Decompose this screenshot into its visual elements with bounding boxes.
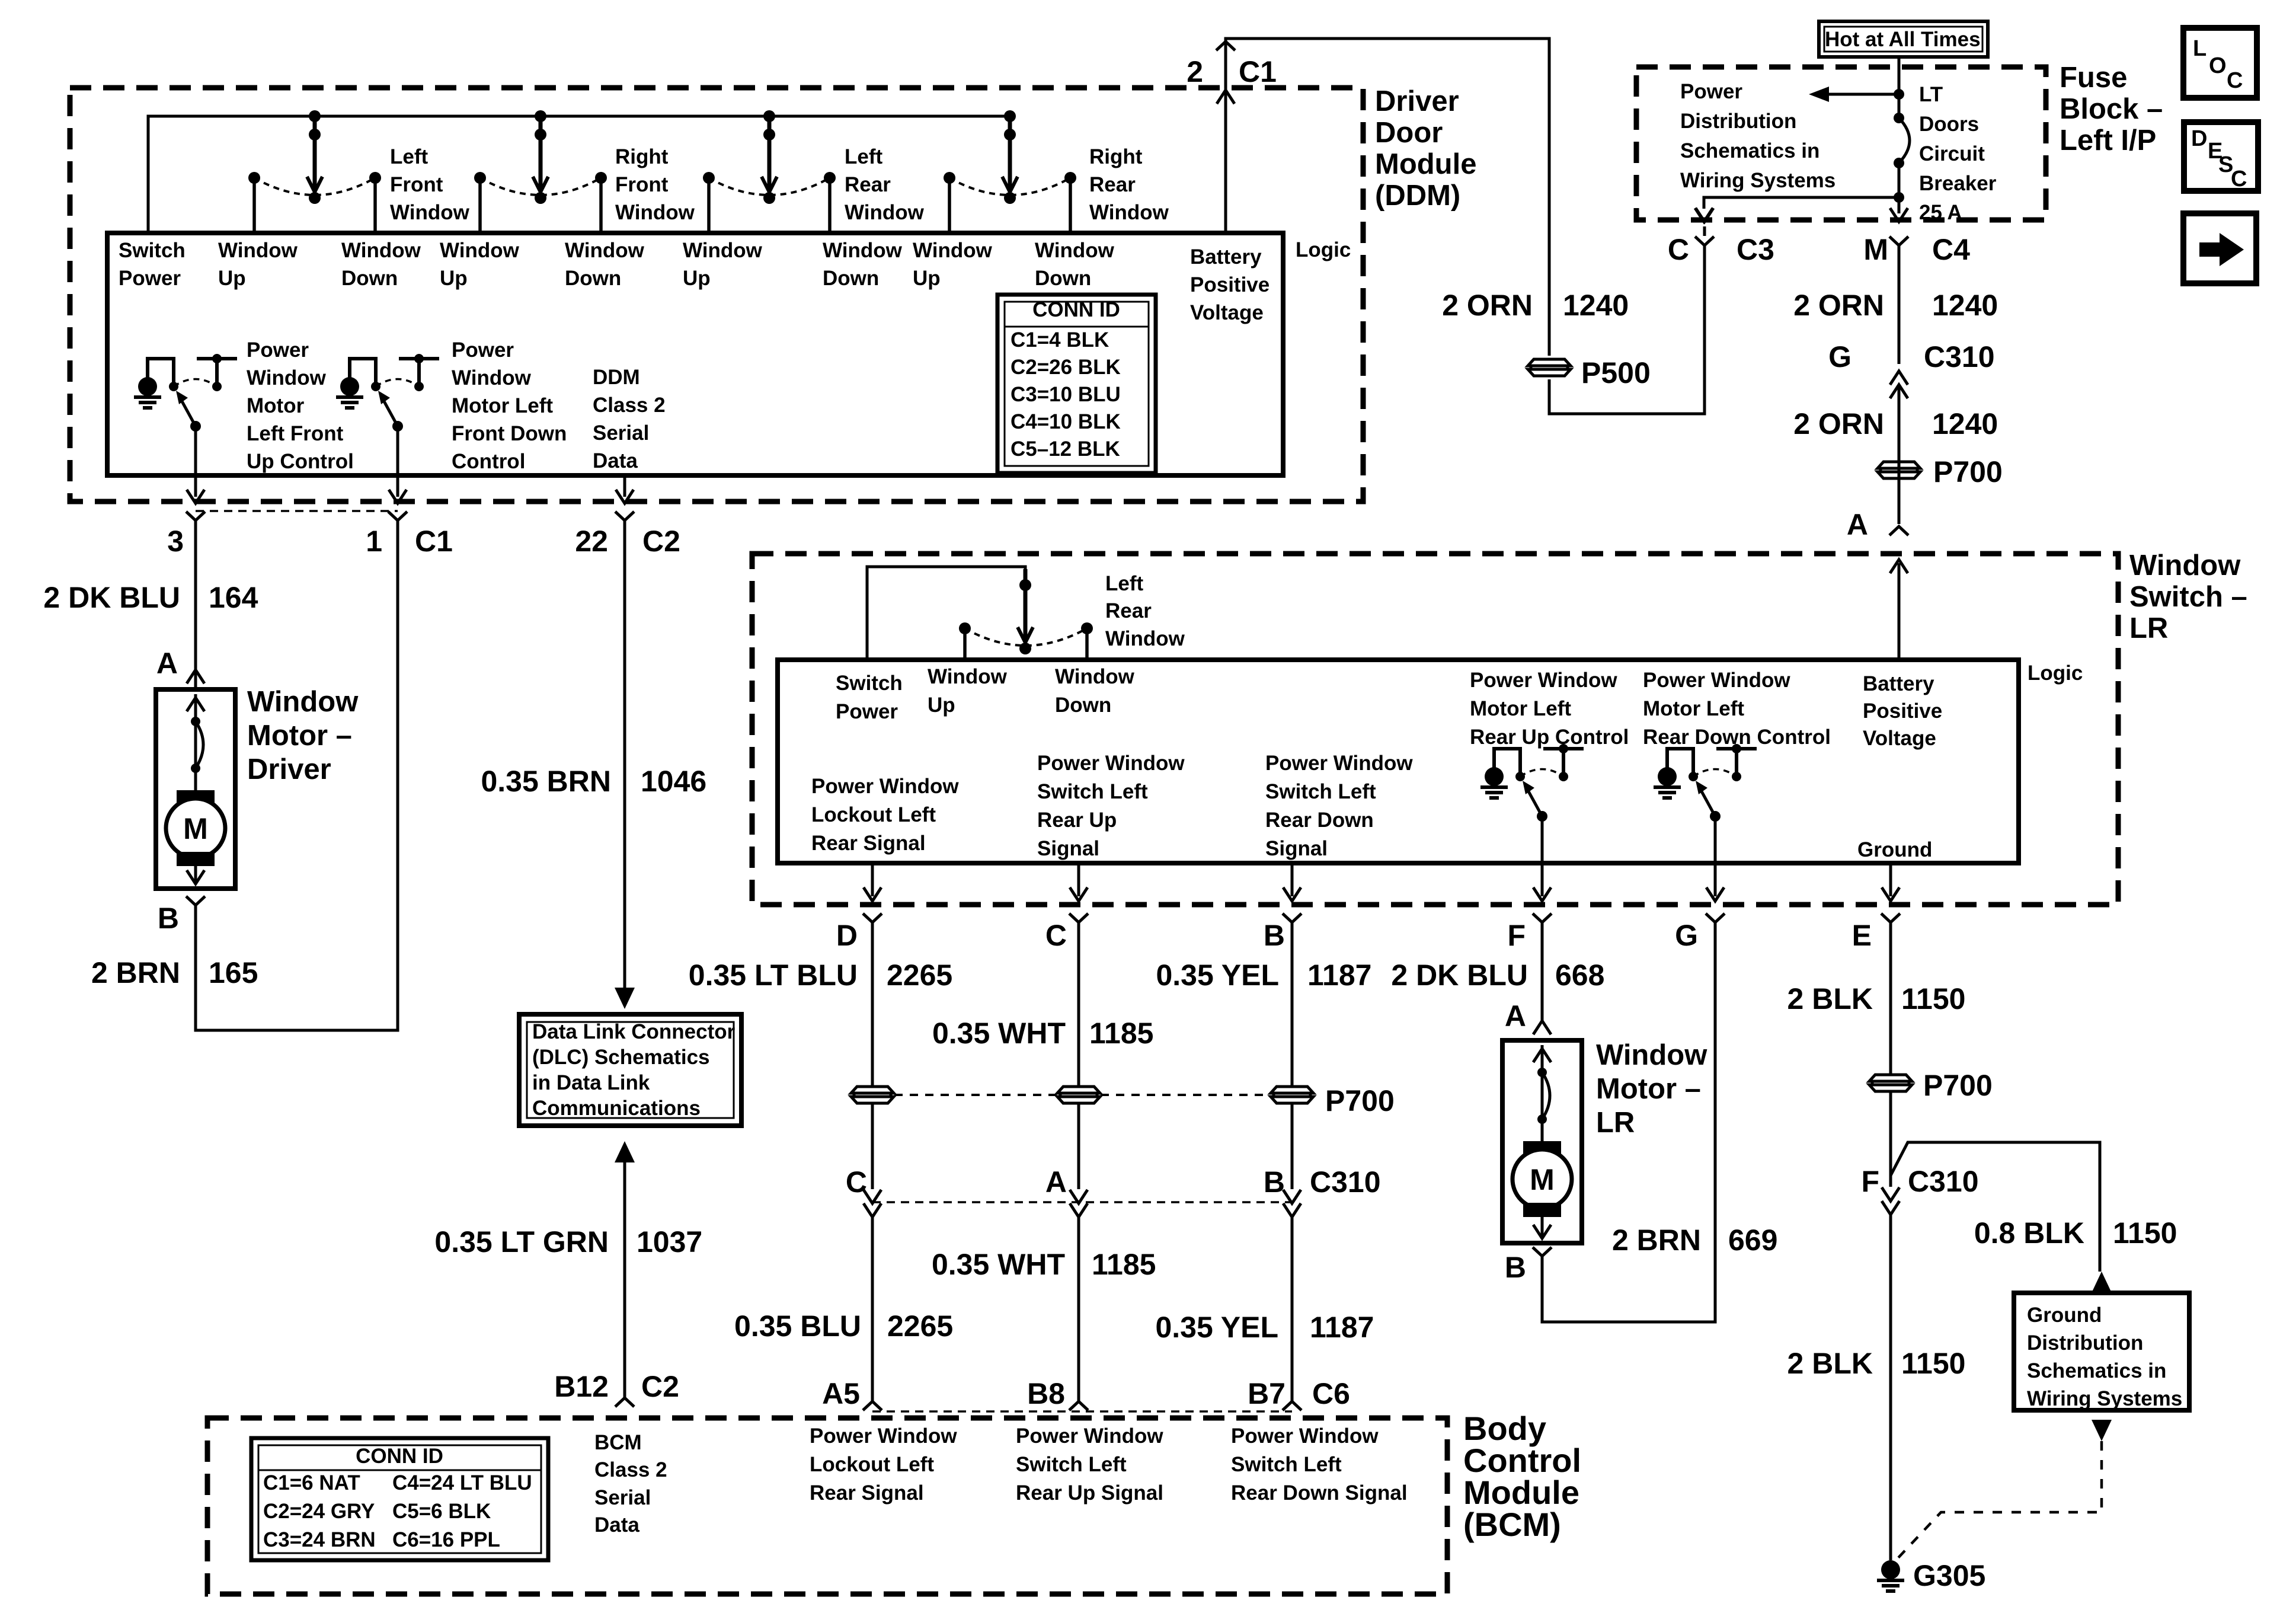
wire pin D circuit 2265 upper: [871, 922, 874, 1086]
svg-text:M: M: [1530, 1163, 1555, 1196]
svg-text:Switch Left: Switch Left: [1016, 1453, 1127, 1476]
svg-text:Module: Module: [1375, 148, 1476, 180]
connector pin B fork (motor driver): [186, 896, 205, 905]
svg-text:1240: 1240: [1563, 289, 1629, 322]
connector pin B fork: [1283, 913, 1302, 922]
svg-text:Hot at All Times: Hot at All Times: [1825, 28, 1981, 51]
svg-text:Down: Down: [341, 267, 398, 290]
svg-text:DDM: DDM: [593, 366, 640, 389]
svg-text:164: 164: [209, 581, 258, 614]
arrow into ground distribution box: [2092, 1272, 2112, 1293]
wire pin E ground circuit 1150: [1889, 922, 1892, 1074]
connector pin G fork: [1706, 913, 1725, 922]
connector C310 pass-through (C wire): [1070, 1190, 1088, 1203]
svg-text:Rear Down Signal: Rear Down Signal: [1231, 1481, 1408, 1505]
svg-text:2 DK BLU: 2 DK BLU: [43, 581, 180, 614]
wire fuse M C4 to G C310: [1898, 245, 1901, 364]
svg-text:C6: C6: [1312, 1377, 1350, 1410]
svg-text:1150: 1150: [1901, 982, 1965, 1015]
table CONN ID (DDM): [997, 295, 1156, 473]
connector pin C C3 fork: [1695, 237, 1714, 245]
svg-text:Fuse: Fuse: [2060, 62, 2127, 94]
svg-text:C: C: [1668, 233, 1689, 266]
svg-text:Power Window: Power Window: [1037, 752, 1185, 775]
svg-text:C1: C1: [1239, 55, 1277, 88]
svg-text:Up Control: Up Control: [247, 450, 354, 473]
svg-text:(DDM): (DDM): [1375, 180, 1460, 212]
svg-text:Power: Power: [119, 267, 181, 290]
svg-text:Doors: Doors: [1919, 113, 1979, 136]
svg-text:Class 2: Class 2: [593, 394, 666, 417]
svg-text:C4=10 BLK: C4=10 BLK: [1011, 410, 1121, 433]
svg-text:Down: Down: [1055, 694, 1111, 717]
svg-text:1240: 1240: [1932, 289, 1998, 322]
connector pin B fork (motor LR): [1533, 1247, 1552, 1256]
svg-text:1240: 1240: [1932, 407, 1998, 440]
wire Q3 output to pin F: [1541, 816, 1544, 896]
svg-text:D: D: [836, 919, 858, 952]
module box Fuse Block - Left I/P dashed outline: [1636, 67, 2046, 220]
svg-text:1187: 1187: [1307, 959, 1371, 992]
svg-text:Switch Left: Switch Left: [1231, 1453, 1342, 1476]
legend box arrow: [2183, 213, 2256, 283]
svg-text:C2=24 GRY: C2=24 GRY: [263, 1500, 375, 1523]
svg-text:22: 22: [575, 525, 608, 558]
svg-text:Right: Right: [1089, 145, 1143, 168]
svg-text:P700: P700: [1923, 1069, 1993, 1102]
box Data Link Connector (DLC) Schematics: [519, 1014, 741, 1126]
svg-text:C: C: [846, 1165, 867, 1199]
svg-text:Front: Front: [615, 173, 669, 196]
svg-text:Signal: Signal: [1037, 837, 1099, 860]
dashed connector line C6 row: [872, 1410, 1292, 1413]
svg-text:A: A: [156, 647, 178, 680]
wire battery into LR logic box: [1898, 563, 1901, 660]
svg-text:Driver: Driver: [1375, 85, 1459, 117]
svg-text:Logic: Logic: [2028, 662, 2083, 685]
svg-text:Wiring Systems: Wiring Systems: [1680, 169, 1835, 192]
svg-text:Power: Power: [452, 338, 514, 362]
box Ground Distribution Schematics in Wiring Systems: [2014, 1293, 2189, 1410]
svg-text:1037: 1037: [637, 1225, 702, 1259]
svg-text:C4: C4: [1932, 233, 1970, 266]
svg-text:G: G: [1828, 340, 1851, 373]
svg-text:C310: C310: [1908, 1165, 1979, 1198]
svg-text:B: B: [1505, 1251, 1526, 1284]
svg-text:Breaker: Breaker: [1919, 172, 1997, 195]
svg-text:Data Link Connector: Data Link Connector: [532, 1020, 736, 1043]
connector pin F fork: [1533, 913, 1552, 922]
svg-text:Rear: Rear: [1089, 173, 1136, 196]
svg-text:Window: Window: [1596, 1039, 1707, 1071]
svg-text:C2: C2: [642, 525, 680, 558]
svg-text:Power Window: Power Window: [810, 1424, 957, 1448]
svg-text:0.35 LT BLU: 0.35 LT BLU: [689, 959, 858, 992]
svg-text:Rear Up Signal: Rear Up Signal: [1016, 1481, 1163, 1505]
svg-text:F: F: [1507, 919, 1526, 952]
svg-text:Battery: Battery: [1863, 672, 1934, 695]
svg-text:C5–12 BLK: C5–12 BLK: [1011, 437, 1120, 461]
svg-text:C6=16 PPL: C6=16 PPL: [392, 1528, 500, 1551]
svg-text:Left I/P: Left I/P: [2060, 124, 2156, 156]
svg-text:0.35 YEL: 0.35 YEL: [1155, 1311, 1278, 1344]
svg-text:Window: Window: [218, 239, 298, 262]
svg-text:Power: Power: [836, 700, 898, 723]
wire breaker to pin M: [1890, 208, 1908, 222]
svg-text:1: 1: [366, 525, 382, 558]
connector pin 1 C1 fork: [388, 512, 407, 520]
svg-text:0.35 BLU: 0.35 BLU: [734, 1309, 861, 1343]
wire hot feed into breaker: [1898, 57, 1901, 118]
svg-text:Rear Up Control: Rear Up Control: [1470, 726, 1629, 749]
svg-text:Voltage: Voltage: [1190, 301, 1264, 324]
svg-text:(DLC) Schematics: (DLC) Schematics: [532, 1046, 710, 1069]
svg-text:Wiring Systems: Wiring Systems: [2027, 1387, 2182, 1410]
wire DLC to BCM pin B12 C2: [615, 1141, 635, 1162]
svg-text:2 BLK: 2 BLK: [1787, 982, 1873, 1015]
module box Driver Door Module (DDM) dashed outline: [70, 88, 1363, 502]
svg-text:B12: B12: [554, 1370, 609, 1403]
wire pin 22 to data link connector: [623, 520, 626, 989]
svg-text:Window: Window: [823, 239, 903, 262]
svg-text:Motor: Motor: [247, 394, 305, 417]
connector pin A chevron (motor LR): [1533, 1021, 1551, 1034]
svg-text:Power Window: Power Window: [1231, 1424, 1379, 1448]
svg-text:Power Window: Power Window: [1470, 669, 1617, 692]
switch S4 right rear window selector: [1004, 110, 1016, 122]
svg-text:C310: C310: [1924, 340, 1995, 373]
svg-text:Up: Up: [218, 267, 246, 290]
wire motor LR B return loop to pin G: [1542, 922, 1715, 1322]
wire LR switch power bus: [867, 567, 1025, 660]
svg-text:Ground: Ground: [1857, 838, 1932, 861]
svg-text:C1=6 NAT: C1=6 NAT: [263, 1471, 360, 1494]
svg-text:A5: A5: [822, 1377, 860, 1410]
splice P700 (C wire): [1057, 1087, 1100, 1093]
svg-text:Power Window: Power Window: [1265, 752, 1413, 775]
wire pin F to window motor LR: [1541, 922, 1544, 1023]
svg-text:25 A: 25 A: [1919, 201, 1962, 224]
svg-text:Window: Window: [341, 239, 421, 262]
svg-text:2 BRN: 2 BRN: [1612, 1224, 1701, 1257]
connector G C310 pass-through: [1890, 371, 1908, 385]
wire Q4 output to pin G: [1714, 816, 1717, 896]
svg-text:0.35 BRN: 0.35 BRN: [481, 765, 611, 798]
svg-text:Lockout Left: Lockout Left: [810, 1453, 934, 1476]
circuit breaker LT Doors 25A: [1894, 113, 1904, 123]
svg-text:2 ORN: 2 ORN: [1793, 289, 1884, 322]
svg-text:P700: P700: [1325, 1084, 1395, 1117]
svg-text:C3: C3: [1737, 233, 1774, 266]
svg-text:0.35 LT GRN: 0.35 LT GRN: [434, 1225, 609, 1259]
wire motor driver B return loop to pin 1: [196, 520, 398, 1030]
svg-text:Data: Data: [594, 1513, 639, 1537]
svg-text:Data: Data: [593, 449, 638, 472]
connector pin D fork: [863, 913, 882, 922]
svg-text:C2=26 BLK: C2=26 BLK: [1011, 356, 1121, 379]
svg-text:Circuit: Circuit: [1919, 142, 1985, 165]
svg-text:Schematics in: Schematics in: [1680, 139, 1819, 162]
svg-text:1046: 1046: [641, 765, 706, 798]
connector pin 2 C1 fork: [1216, 41, 1235, 50]
svg-text:Class 2: Class 2: [594, 1458, 667, 1481]
svg-text:D: D: [2191, 126, 2207, 151]
wire Q1 output to pin 3: [194, 426, 197, 497]
svg-text:Battery: Battery: [1190, 245, 1262, 269]
svg-text:165: 165: [209, 956, 258, 989]
wire LR pin B output: [1291, 863, 1294, 896]
module box Window Switch - LR dashed outline: [752, 554, 2118, 905]
svg-text:Rear Signal: Rear Signal: [811, 832, 926, 855]
dashed connector line C310 row: [872, 1201, 1292, 1203]
svg-text:Up: Up: [913, 267, 941, 290]
connector pin A5 fork: [863, 1401, 882, 1410]
svg-text:Left: Left: [390, 145, 428, 168]
svg-text:Communications: Communications: [532, 1097, 701, 1120]
svg-text:B: B: [158, 902, 179, 935]
svg-text:Down: Down: [1035, 267, 1091, 290]
svg-text:C: C: [2227, 68, 2243, 93]
svg-text:C310: C310: [1310, 1165, 1381, 1199]
svg-text:B: B: [1264, 919, 1285, 952]
connector pin E fork: [1881, 913, 1900, 922]
svg-text:B: B: [1264, 1165, 1285, 1199]
connector pin B7 fork: [1283, 1401, 1302, 1410]
svg-text:Logic: Logic: [1296, 238, 1351, 261]
svg-text:Up: Up: [683, 267, 711, 290]
switch S3 left rear window selector: [763, 110, 775, 122]
wire DDM switch power bus: [148, 116, 1010, 233]
svg-text:Window: Window: [2129, 550, 2241, 582]
svg-text:Door: Door: [1375, 117, 1443, 149]
connector pin 3 C1 fork: [186, 512, 205, 520]
svg-text:Window: Window: [390, 201, 470, 224]
wire G C310 to window switch LR pin A: [1898, 386, 1901, 524]
table CONN ID (BCM): [251, 1438, 548, 1560]
wire serial data to pin 22: [623, 475, 626, 497]
svg-text:Power: Power: [1680, 80, 1742, 103]
wire LR pin C output: [1077, 863, 1080, 896]
svg-text:G305: G305: [1913, 1559, 1985, 1592]
svg-text:Rear Signal: Rear Signal: [810, 1481, 924, 1505]
svg-text:Rear Up: Rear Up: [1037, 809, 1117, 832]
dashed connector line C1 between pin 3 and pin 1: [196, 510, 398, 512]
wire branch to ground distribution: [1891, 1142, 2100, 1272]
svg-text:LT: LT: [1919, 83, 1943, 106]
wire ground pin E output: [1889, 863, 1892, 896]
svg-text:Power Window: Power Window: [1016, 1424, 1163, 1448]
svg-text:CONN ID: CONN ID: [1032, 298, 1120, 321]
svg-text:2 ORN: 2 ORN: [1442, 289, 1533, 322]
splice P700 (orange wire): [1878, 462, 1920, 468]
splice P700 (ground wire): [1869, 1075, 1912, 1081]
svg-text:C: C: [2231, 167, 2247, 191]
svg-text:Window: Window: [913, 239, 993, 262]
wire P500 to fuse block pin C C3: [1549, 245, 1705, 414]
svg-text:in Data Link: in Data Link: [532, 1071, 650, 1094]
arrow into window switch LR: [1890, 560, 1908, 573]
svg-text:C3=24 BRN: C3=24 BRN: [263, 1528, 376, 1551]
svg-text:Rear: Rear: [1105, 599, 1152, 622]
svg-text:(BCM): (BCM): [1463, 1506, 1561, 1543]
svg-text:Distribution: Distribution: [2027, 1331, 2143, 1355]
svg-text:Driver: Driver: [247, 753, 331, 785]
svg-text:Window: Window: [615, 201, 695, 224]
svg-text:Front: Front: [390, 173, 443, 196]
wire Q2 output to pin 1: [396, 426, 399, 497]
svg-text:Left: Left: [1105, 572, 1144, 595]
svg-text:A: A: [1045, 1165, 1067, 1199]
svg-text:BCM: BCM: [594, 1431, 642, 1454]
svg-text:M: M: [1863, 233, 1888, 266]
dashed splice line P700 row: [894, 1094, 1057, 1096]
wire pin 3 to window motor driver pin A: [194, 520, 197, 688]
svg-text:Window: Window: [1105, 627, 1185, 650]
svg-text:A: A: [1505, 999, 1526, 1033]
svg-text:F: F: [1861, 1165, 1879, 1198]
svg-text:2 DK BLU: 2 DK BLU: [1391, 959, 1528, 992]
svg-text:Rear: Rear: [845, 173, 891, 196]
svg-text:Serial: Serial: [594, 1486, 651, 1509]
svg-text:2265: 2265: [887, 959, 952, 992]
connector pin 22 C2 fork: [615, 512, 634, 520]
switch Q1 power window motor left front up control: [138, 377, 157, 396]
ground G305: [1881, 1560, 1900, 1579]
svg-text:Positive: Positive: [1863, 700, 1942, 723]
box Hot at All Times: [1819, 21, 1988, 57]
switch Q4 motor left rear down control: [1658, 767, 1677, 786]
component Window Motor - Driver: [156, 689, 235, 889]
svg-text:669: 669: [1728, 1224, 1777, 1257]
connector pin B12 C2 fork: [615, 1398, 634, 1407]
connector pin A chevron (motor driver): [187, 670, 204, 683]
connector C310 pass-through (D wire): [864, 1190, 881, 1203]
svg-text:Left: Left: [845, 145, 883, 168]
wire LR pin D output: [871, 863, 874, 896]
svg-text:C2: C2: [641, 1370, 679, 1403]
svg-text:Voltage: Voltage: [1863, 727, 1936, 750]
module box Body Control Module (BCM) dashed outline: [207, 1418, 1447, 1594]
svg-text:B7: B7: [1248, 1377, 1285, 1410]
switch S1 left front window selector: [309, 110, 321, 122]
wire breaker to pin C branch: [1704, 197, 1899, 209]
svg-text:Serial: Serial: [593, 421, 649, 445]
svg-text:C1: C1: [415, 525, 453, 558]
svg-text:Power Window: Power Window: [811, 775, 959, 798]
svg-text:Control: Control: [452, 450, 525, 473]
LR logic box: [778, 660, 2019, 863]
svg-text:C1=4 BLK: C1=4 BLK: [1011, 328, 1109, 352]
svg-text:Power: Power: [247, 338, 309, 362]
svg-text:Window: Window: [1035, 239, 1115, 262]
svg-text:Motor –: Motor –: [247, 720, 352, 752]
svg-text:Lockout Left: Lockout Left: [811, 803, 936, 826]
svg-text:Window: Window: [247, 366, 327, 389]
switch S5 left rear window selector: [1019, 579, 1031, 591]
svg-text:0.8 BLK: 0.8 BLK: [1974, 1216, 2084, 1250]
svg-text:2 ORN: 2 ORN: [1793, 407, 1884, 440]
svg-text:Signal: Signal: [1265, 837, 1328, 860]
switch Q3 motor left rear up control: [1485, 767, 1504, 786]
svg-text:Motor –: Motor –: [1596, 1073, 1701, 1105]
svg-text:0.35 WHT: 0.35 WHT: [932, 1248, 1065, 1281]
connector pin M C4 fork: [1889, 237, 1908, 245]
svg-text:Rear Down: Rear Down: [1265, 809, 1374, 832]
svg-text:P700: P700: [1933, 455, 2003, 488]
svg-text:Motor Left: Motor Left: [452, 394, 553, 417]
wire pin B circuit 1187 upper: [1291, 922, 1294, 1086]
connector C310 pass-through (B wire): [1283, 1190, 1301, 1203]
legend box DESC: [2184, 122, 2258, 191]
connector pin C fork: [1069, 913, 1088, 922]
svg-text:C3=10 BLU: C3=10 BLU: [1011, 383, 1121, 406]
svg-text:Window: Window: [845, 201, 925, 224]
svg-text:2265: 2265: [887, 1309, 953, 1343]
DDM logic box: [107, 233, 1283, 475]
svg-text:A: A: [1847, 508, 1868, 541]
svg-text:3: 3: [167, 525, 184, 558]
svg-text:CONN ID: CONN ID: [356, 1445, 443, 1468]
arrow to power distribution: [1822, 93, 1899, 96]
svg-text:Down: Down: [565, 267, 621, 290]
svg-text:Window: Window: [565, 239, 645, 262]
svg-text:Switch Left: Switch Left: [1265, 780, 1376, 803]
svg-text:2: 2: [1187, 55, 1203, 88]
connector pin B8 fork: [1069, 1401, 1088, 1410]
svg-text:Block –: Block –: [2060, 93, 2163, 125]
svg-text:Switch Left: Switch Left: [1037, 780, 1148, 803]
svg-text:Switch: Switch: [119, 239, 186, 262]
svg-text:M: M: [183, 812, 208, 845]
svg-text:C4=24 LT BLU: C4=24 LT BLU: [392, 1471, 532, 1494]
svg-text:Down: Down: [823, 267, 879, 290]
svg-text:Power Window: Power Window: [1643, 669, 1790, 692]
splice P700 (D wire): [851, 1087, 894, 1093]
svg-text:2 BLK: 2 BLK: [1787, 1347, 1873, 1380]
svg-text:Switch –: Switch –: [2129, 581, 2247, 613]
splice P700 (B wire): [1271, 1087, 1313, 1093]
svg-text:C5=6 BLK: C5=6 BLK: [392, 1500, 491, 1523]
svg-text:1187: 1187: [1310, 1311, 1374, 1344]
svg-text:Front Down: Front Down: [452, 422, 567, 445]
svg-text:Left Front: Left Front: [247, 422, 344, 445]
svg-text:Distribution: Distribution: [1680, 110, 1796, 133]
switch Q2 power window motor left front down control: [340, 377, 359, 396]
svg-text:Up: Up: [928, 694, 955, 717]
svg-text:Window: Window: [440, 239, 520, 262]
component Window Motor - LR: [1502, 1040, 1582, 1243]
svg-text:1150: 1150: [2113, 1216, 2177, 1250]
switch S2 right front window selector: [535, 110, 546, 122]
wire pin C circuit 1185 upper: [1077, 922, 1080, 1086]
svg-text:Right: Right: [615, 145, 669, 168]
svg-text:Ground: Ground: [2027, 1304, 2102, 1327]
svg-text:Window: Window: [452, 366, 532, 389]
legend box LOC: [2183, 28, 2257, 98]
connector pin A fork (window switch LR): [1889, 526, 1908, 535]
svg-text:Window: Window: [683, 239, 763, 262]
wire battery positive voltage DDM pin 2 C1: [1226, 39, 1549, 356]
svg-text:LR: LR: [1596, 1107, 1635, 1139]
svg-text:B8: B8: [1027, 1377, 1065, 1410]
svg-text:668: 668: [1555, 959, 1604, 992]
svg-text:Window: Window: [1089, 201, 1169, 224]
svg-text:1150: 1150: [1901, 1347, 1965, 1380]
svg-text:C: C: [1045, 919, 1067, 952]
svg-text:O: O: [2209, 53, 2227, 78]
svg-text:1185: 1185: [1089, 1017, 1153, 1050]
dashed wire ground distribution to G305: [2092, 1420, 2112, 1441]
